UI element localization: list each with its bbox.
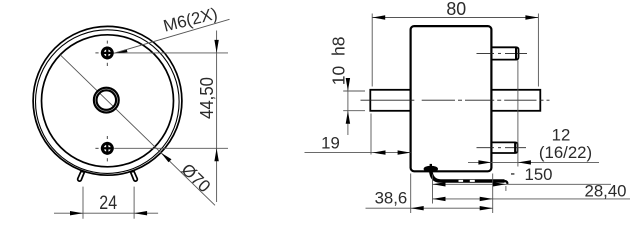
dimension 19 xyxy=(305,150,411,154)
chamfer circle xyxy=(36,30,180,174)
extension body right xyxy=(492,174,494,214)
svg-text:150: 150 xyxy=(525,165,553,184)
cable end tail xyxy=(505,181,508,184)
extension grommet center xyxy=(432,175,434,204)
svg-text:28,40: 28,40 xyxy=(585,182,627,201)
cable white dashes xyxy=(459,180,464,182)
diameter arrow on outer circle xyxy=(161,153,172,163)
svg-text:10 h8: 10 h8 xyxy=(329,37,349,86)
extension cable end xyxy=(505,186,507,191)
M6 upper centerline ticks xyxy=(106,41,108,44)
shaft right xyxy=(491,90,540,111)
svg-text:12: 12 xyxy=(552,126,571,145)
diagonal diameter line xyxy=(60,55,215,206)
dimension 28,40 xyxy=(433,197,631,201)
dimension 12 (16/22) xyxy=(468,160,599,164)
leader M6(2X) xyxy=(114,19,230,53)
extension line stud tips xyxy=(517,61,519,167)
svg-text:(16/22): (16/22) xyxy=(539,143,592,162)
stray dash near 150 xyxy=(511,173,514,175)
M6 lower horizontal centerline to dimension xyxy=(114,147,228,149)
svg-text:38,6: 38,6 xyxy=(375,189,408,208)
svg-text:24: 24 xyxy=(99,193,117,214)
dimension 80 xyxy=(372,14,538,87)
svg-text:80: 80 xyxy=(446,0,466,19)
svg-text:19: 19 xyxy=(321,134,340,153)
inner face circle xyxy=(42,35,174,167)
svg-text:44,50: 44,50 xyxy=(197,77,217,119)
cable grommet xyxy=(424,166,438,173)
terminal tab left xyxy=(78,171,85,181)
terminal tab right xyxy=(131,171,138,181)
extension body left xyxy=(410,174,412,214)
M6 lower centerline ticks xyxy=(106,136,108,139)
M6 hole upper xyxy=(101,47,114,60)
stud upper xyxy=(491,47,518,59)
stud upper centerline (on top) xyxy=(477,52,528,54)
stud lower tip chamfer line xyxy=(514,143,516,153)
M6 upper horizontal centerline to dimension xyxy=(114,52,228,54)
stud upper tip chamfer line xyxy=(515,48,517,59)
dimension 38,6 xyxy=(366,206,493,210)
dimension 24 xyxy=(54,187,158,219)
shaft centerline xyxy=(361,99,550,101)
M6 hole lower xyxy=(101,142,114,155)
dimension 150 xyxy=(433,182,612,186)
cable xyxy=(431,171,505,182)
stud lower centerline (on top) xyxy=(477,147,527,149)
stud lower xyxy=(491,142,517,153)
body xyxy=(411,26,492,171)
extension line shaft-left lower xyxy=(370,114,372,155)
shaft hole (center) xyxy=(95,89,117,111)
dimension 10 h8 xyxy=(343,78,365,135)
shaft left xyxy=(370,90,410,111)
dimension 44,50 xyxy=(214,31,218,203)
outer circle xyxy=(33,26,182,175)
grommet top nub xyxy=(430,164,432,167)
